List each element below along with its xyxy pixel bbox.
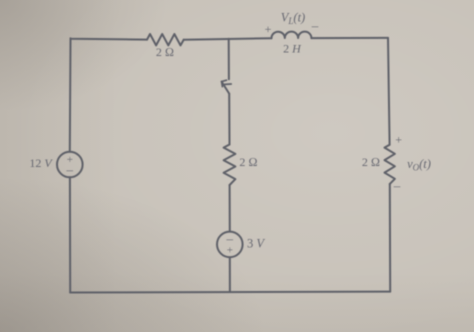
- svg-text:2 H: 2 H: [283, 42, 302, 56]
- switch contact tick: [225, 83, 231, 85]
- svg-text:–: –: [393, 178, 401, 193]
- svg-text:2 Ω: 2 Ω: [362, 155, 380, 169]
- svg-text:2 Ω: 2 Ω: [239, 155, 257, 169]
- resistor R3 2ohm right: [385, 145, 395, 184]
- svg-text:+: +: [265, 22, 272, 36]
- wire right side lower: [389, 184, 391, 292]
- wire left side lower: [69, 177, 71, 292]
- wire bottom: [70, 291, 390, 294]
- inductor L1 2H: [271, 32, 311, 39]
- svg-text:3 V: 3 V: [247, 237, 265, 251]
- wire middle upper (to switch): [228, 39, 230, 79]
- wire left side upper: [69, 38, 72, 151]
- svg-text:VL(t): VL(t): [281, 11, 305, 27]
- svg-text:+: +: [227, 245, 233, 257]
- resistor R2 2ohm middle: [224, 145, 236, 186]
- voltage source V2 3V circle: [217, 232, 243, 258]
- wire right side upper: [388, 38, 390, 145]
- switch arrowhead: [222, 80, 227, 86]
- svg-text:vO(t): vO(t): [407, 157, 431, 173]
- svg-text:–: –: [66, 162, 74, 177]
- svg-text:+: +: [395, 133, 402, 147]
- wire top-middle segment: [184, 38, 272, 40]
- voltage source V1 12V circle: [57, 152, 83, 178]
- svg-text:12 V: 12 V: [29, 156, 53, 170]
- resistor R1 2ohm top: [147, 34, 184, 45]
- wire top-left segment: [71, 38, 148, 39]
- switch SW blade: [222, 82, 230, 94]
- svg-text:2 Ω: 2 Ω: [156, 45, 174, 59]
- wire middle lower: [229, 257, 231, 292]
- wire middle between resistor and source: [229, 185, 231, 232]
- svg-text:–: –: [311, 18, 319, 33]
- wire middle between switch and resistor: [228, 94, 230, 145]
- wire top-right segment: [311, 37, 388, 39]
